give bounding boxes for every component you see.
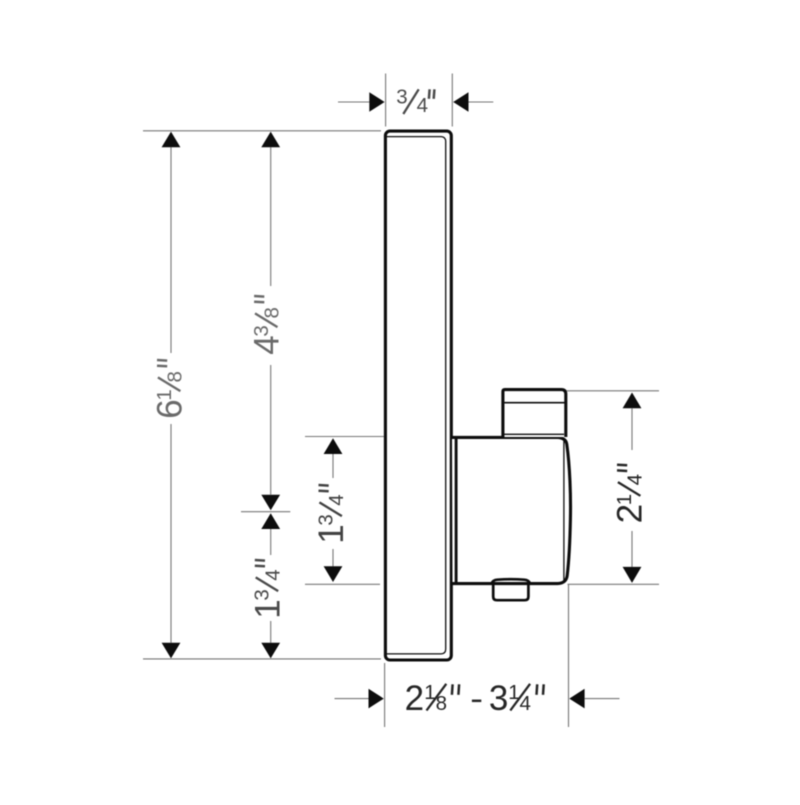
top dim 3/4 right tail line (469, 101, 494, 103)
svg-text:1: 1 (312, 524, 351, 543)
top dim label 3/4" (396, 86, 434, 118)
svg-text:4: 4 (261, 569, 284, 580)
top extension line over plate right edge (451, 74, 453, 127)
bottom dim left tail line (335, 698, 369, 700)
dim 2-1/4 down arrow (623, 567, 642, 583)
handle body (valve trim, side view) (452, 437, 571, 583)
bottom dim label 2-1/8" - 3-1/4" (405, 679, 544, 718)
svg-text:4: 4 (417, 94, 428, 117)
svg-text:4: 4 (325, 494, 348, 505)
bottom dim right arrow (569, 689, 584, 709)
knob band line (504, 402, 564, 404)
svg-text:3: 3 (251, 589, 274, 600)
dim lower 1-3/4 line upper segment (270, 529, 272, 555)
dim 2-1/4 label (611, 465, 650, 524)
dim inner 1-3/4 down arrow (324, 566, 343, 582)
dim inner 1-3/4 line upper segment (332, 454, 334, 478)
bottom dome bump on body underside (491, 579, 530, 583)
svg-text:3: 3 (396, 86, 407, 109)
bottom dim right tail line (585, 698, 620, 700)
dim lower 1-3/4 down arrow (261, 643, 280, 659)
dim 4-3/8 line upper segment (270, 147, 272, 286)
dim lower 1-3/4 line lower segment (270, 621, 272, 643)
dim 4-3/8 label (248, 296, 287, 355)
dim 4-3/8 line lower segment (270, 365, 272, 495)
svg-text:3: 3 (314, 514, 337, 525)
dim 2-1/4 up arrow (623, 393, 642, 409)
escutcheon plate inner bevel line (387, 137, 446, 654)
body-bottom extension line (right side) (568, 583, 660, 585)
svg-text:3: 3 (250, 325, 273, 336)
svg-text:2: 2 (405, 679, 424, 718)
bottom horizontal extension line (plate bottom level) (143, 658, 381, 660)
svg-text:1: 1 (613, 494, 636, 505)
knob-top extension line (right side) (567, 390, 660, 392)
body-bottom extension line (left side) (305, 583, 380, 585)
svg-text:6: 6 (151, 399, 190, 418)
dim 2-1/4 line lower segment (631, 531, 633, 567)
svg-text:4: 4 (624, 474, 647, 485)
svg-text:8: 8 (261, 307, 284, 318)
dim lower 1-3/4 label (248, 560, 287, 619)
dim 6-1/8 label (151, 360, 190, 419)
dim inner 1-3/4 up arrow (324, 438, 343, 454)
dim 6-1/8 down arrow (162, 643, 181, 659)
handle body front-face edge (thin) (563, 439, 565, 580)
dim 4-3/8 up arrow (261, 132, 280, 148)
svg-text:8: 8 (164, 371, 187, 382)
handle body left edge (455, 437, 458, 583)
dim 6-1/8 line upper segment (170, 147, 172, 353)
svg-text:2: 2 (611, 504, 650, 523)
dim 6-1/8 up arrow (162, 132, 181, 148)
temperature knob on top of body (503, 390, 566, 437)
escutcheon plate outer outline (side view) (385, 131, 451, 660)
top dim 3/4 right arrow (453, 92, 468, 112)
top dim 3/4 left tail line (338, 101, 369, 103)
bottom cap rectangle under body (493, 584, 528, 600)
dim 2-1/4 line upper segment (631, 408, 633, 450)
top horizontal extension line (plate top level) (143, 130, 381, 132)
bottom-left vertical extension line (384, 663, 386, 727)
dim lower 1-3/4 up arrow (261, 513, 280, 529)
body-top extension line (left side) (305, 436, 384, 438)
dim inner 1-3/4 label (312, 485, 351, 544)
dim 4-3/8 down arrow (261, 495, 280, 511)
top extension line over plate left edge (385, 74, 387, 127)
svg-text:1: 1 (248, 599, 287, 618)
svg-text:4: 4 (248, 335, 287, 354)
centerline tick extension (241, 511, 290, 513)
dim inner 1-3/4 line lower segment (332, 549, 334, 566)
svg-text:1: 1 (153, 389, 176, 400)
bottom dim left arrow (369, 689, 384, 709)
knob base seam (thin) (504, 433, 564, 435)
svg-text:3: 3 (489, 679, 508, 718)
top dim 3/4 left arrow (369, 92, 384, 112)
bottom-right vertical extension line (568, 584, 570, 727)
dim 6-1/8 line lower segment (170, 424, 172, 643)
